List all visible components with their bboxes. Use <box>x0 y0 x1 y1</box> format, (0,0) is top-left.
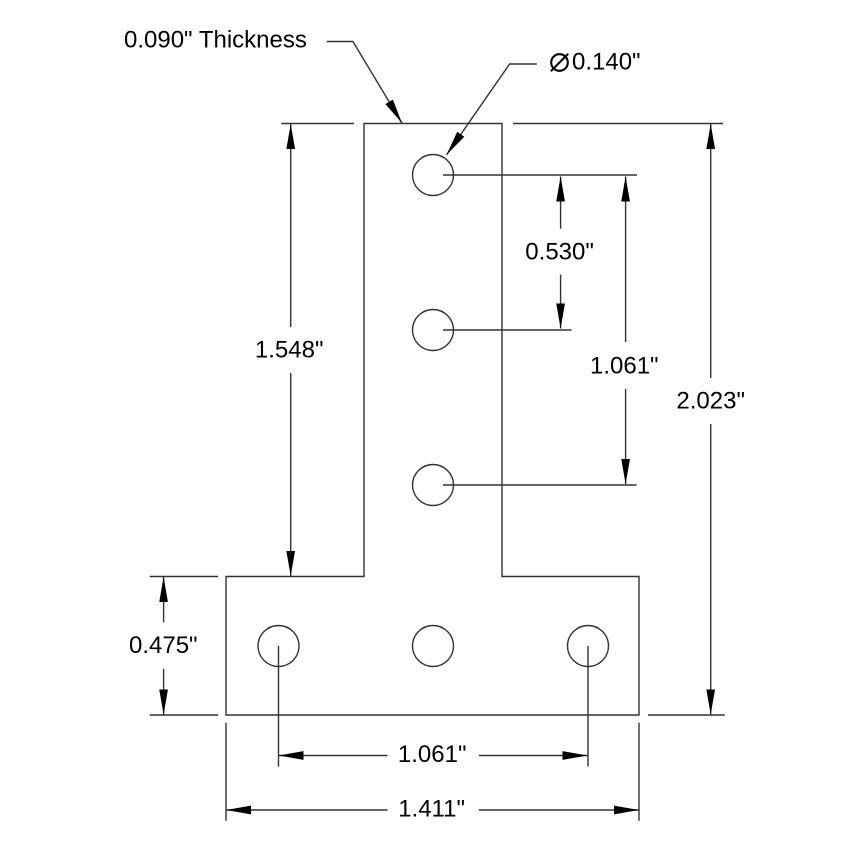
svg-text:0.475": 0.475" <box>129 632 198 659</box>
svg-text:1.061": 1.061" <box>590 353 659 380</box>
svg-text:0.090" Thickness: 0.090" Thickness <box>124 27 307 54</box>
svg-text:0.140": 0.140" <box>572 49 641 76</box>
svg-text:1.548": 1.548" <box>255 337 324 364</box>
svg-text:1.411": 1.411" <box>398 795 465 822</box>
svg-text:0.530": 0.530" <box>525 238 594 265</box>
svg-text:2.023": 2.023" <box>676 388 745 415</box>
svg-text:1.061": 1.061" <box>398 741 467 768</box>
